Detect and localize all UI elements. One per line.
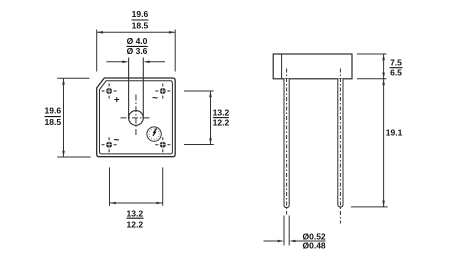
svg-text:13.2: 13.2 xyxy=(127,208,144,218)
svg-text:Ø 4.0: Ø 4.0 xyxy=(127,36,148,46)
svg-text:12.2: 12.2 xyxy=(213,118,230,128)
svg-text:7.5: 7.5 xyxy=(390,58,402,68)
svg-text:Ø0.48: Ø0.48 xyxy=(303,240,326,250)
svg-text:~: ~ xyxy=(113,135,119,146)
svg-text:19.6: 19.6 xyxy=(132,9,149,19)
svg-text:19.6: 19.6 xyxy=(45,106,62,116)
svg-text:~: ~ xyxy=(152,93,158,104)
svg-text:Ø 3.6: Ø 3.6 xyxy=(127,46,148,56)
svg-text:19.1: 19.1 xyxy=(386,127,403,137)
svg-text:18.5: 18.5 xyxy=(45,117,62,127)
svg-text:13.2: 13.2 xyxy=(213,108,230,118)
svg-text:18.5: 18.5 xyxy=(132,21,149,31)
svg-text:12.2: 12.2 xyxy=(127,219,144,229)
svg-text:6.5: 6.5 xyxy=(390,68,402,78)
svg-text:+: + xyxy=(114,95,120,106)
